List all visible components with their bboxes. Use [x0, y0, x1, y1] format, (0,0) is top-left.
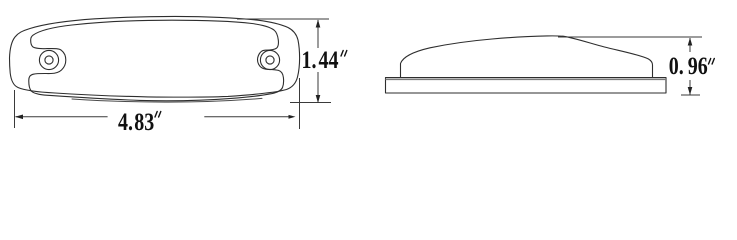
extension line bottom (1.44) [290, 102, 331, 104]
svg-text:96: 96 [688, 52, 708, 80]
side view base plate [386, 78, 667, 94]
label 4.83 inch [118, 108, 154, 136]
screw hole left outer [39, 50, 58, 69]
arrowhead up (1.44 top) [316, 20, 321, 28]
screw hole right inner [266, 56, 274, 64]
screw hole right outer [260, 50, 279, 69]
svg-text:4.: 4. [118, 108, 133, 136]
label 1.44 inch [302, 46, 339, 74]
extension line top (1.44) [237, 18, 329, 20]
prime mark 1.44 [341, 51, 347, 57]
svg-text:1.: 1. [302, 46, 317, 74]
arrowhead up (0.96 top) [688, 38, 693, 46]
arrowhead right (4.83) [289, 115, 296, 119]
front view inner bezel outline with screw-ear cutouts [29, 20, 284, 101]
label 0.96 inch [669, 52, 708, 80]
svg-text:0.: 0. [669, 52, 684, 80]
prime mark 0.96 [709, 59, 715, 65]
arrowhead left (4.83) [15, 115, 23, 120]
dimension line 0.96 vertical [689, 38, 691, 52]
arrowhead down (0.96 bottom) [688, 87, 693, 95]
side view base plate top edge thick [386, 78, 667, 80]
front view outer outline [10, 16, 300, 97]
svg-text:44: 44 [319, 46, 339, 74]
arrowhead down (1.44 bottom) [316, 95, 321, 103]
dimension line 4.83 horizontal [16, 116, 108, 118]
screw hole left inner [45, 56, 53, 64]
extension line right (4.83) [299, 78, 301, 129]
extension line left (4.83) [14, 90, 16, 128]
svg-text:83: 83 [134, 108, 154, 136]
dimension line 1.44 vertical [317, 20, 319, 48]
side view lens dome profile [401, 36, 653, 78]
lens bottom parting line [72, 98, 262, 102]
prime mark 4.83 [155, 112, 161, 118]
extension line top (0.96) [558, 36, 702, 38]
extension line bottom tick (0.96) [681, 94, 700, 96]
